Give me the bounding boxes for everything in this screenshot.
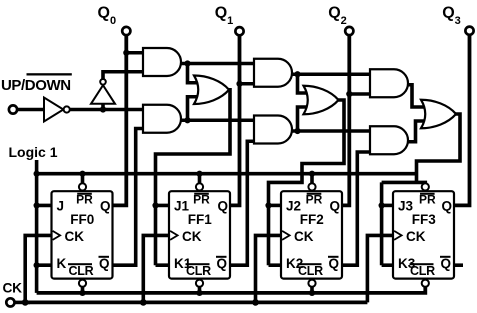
svg-text:FF3: FF3 — [412, 212, 436, 227]
wire J3/K3 riser — [380, 182, 384, 265]
svg-text:FF1: FF1 — [188, 212, 212, 227]
wire AND1a output chain to AND2a input — [180, 62, 258, 66]
svg-text:Q3: Q3 — [442, 5, 461, 27]
clock triangle FF1 — [170, 231, 178, 240]
svg-text:Logic 1: Logic 1 — [9, 144, 58, 160]
junction CK input — [22, 299, 29, 306]
junction Logic1 / PR trunk — [34, 171, 40, 177]
svg-text:J: J — [57, 199, 65, 214]
wire junction to OR2 bottom input — [298, 107, 310, 131]
svg-text:J2: J2 — [286, 199, 301, 214]
wire AND3b output to OR3 bottom input — [407, 121, 427, 142]
svg-text:Q: Q — [329, 256, 340, 271]
junction J2 — [265, 202, 271, 208]
and-gate A4 (DOWN&#183;Q0bar&#183;Q1bar) — [254, 116, 292, 144]
junction AND2a output — [294, 71, 300, 77]
wire PR stub FF0 — [81, 174, 85, 184]
svg-text:Q: Q — [99, 256, 110, 271]
svg-text:Q0: Q0 — [98, 5, 117, 27]
svg-text:CK: CK — [65, 229, 85, 244]
junction AND1a output — [184, 60, 190, 66]
junction PR stub FF0 — [79, 171, 85, 177]
overline DOWN — [27, 73, 72, 75]
svg-text:UP/DOWN: UP/DOWN — [1, 77, 71, 94]
svg-text:CLR: CLR — [69, 264, 94, 278]
junction J0 — [34, 202, 40, 208]
clock triangle FF3 — [394, 231, 402, 240]
overline Qbar FF2 — [328, 256, 339, 258]
wire PR stub FF2 — [310, 174, 314, 184]
junction CLR stub FF2 — [309, 290, 315, 296]
overline PR FF1 — [194, 193, 209, 195]
wire junction to OR1 bottom input — [188, 97, 201, 121]
svg-text:Q: Q — [100, 199, 111, 214]
clock triangle FF2 — [282, 231, 290, 240]
wire J2 input — [269, 204, 285, 208]
wire CK riser FF3 — [367, 235, 396, 302]
wire FF1 Q output to node Q1 trunk — [228, 35, 240, 206]
svg-text:Q1: Q1 — [215, 5, 234, 27]
svg-text:Q: Q — [218, 199, 229, 214]
flip-flop FF2 box — [281, 191, 342, 278]
wire OR1 output to J1/K1 riser — [156, 90, 231, 265]
wire CLR trunk — [37, 286, 426, 293]
overline PR FF2 — [307, 193, 322, 195]
wire node Q2 to AND3a bottom input — [349, 92, 374, 96]
svg-text:FF2: FF2 — [300, 212, 324, 227]
svg-text:Q: Q — [217, 256, 228, 271]
junction AND1b output — [184, 117, 190, 123]
inverter U1 (UP/DOWN input) — [44, 98, 63, 122]
junction CLR stub FF0 — [79, 290, 85, 296]
svg-text:Q: Q — [441, 256, 452, 271]
wire node Q1 to AND2a bottom input — [240, 82, 259, 86]
terminal CK input — [6, 298, 14, 306]
junction PR stub FF1 — [196, 171, 202, 177]
junction AND2b output — [294, 128, 300, 134]
junction J3 — [379, 202, 385, 208]
wire FF0 Q output to node Q0 trunk — [111, 35, 127, 206]
svg-text:CLR: CLR — [186, 264, 211, 278]
overline CLR FF2 — [298, 263, 322, 265]
svg-text:CK: CK — [294, 229, 314, 244]
svg-text:CK: CK — [406, 229, 426, 244]
wire U1 output to AND1b top input (DOWN line) — [70, 108, 147, 112]
terminal UP/DOWN input — [9, 105, 17, 113]
inverter U2 (up-pointing) — [91, 85, 115, 104]
wire junction to OR2 top input — [298, 74, 310, 93]
wire FF2 Qbar to AND3b bottom input — [340, 152, 374, 265]
overline Qbar FF0 — [99, 256, 110, 258]
svg-text:CK: CK — [182, 229, 202, 244]
or-gate O2 (J2K2) — [304, 86, 339, 115]
and-gate A3 (UP&#183;Q0&#183;Q1) — [254, 59, 292, 87]
wire PR trunk (Logic 1 line) — [37, 172, 417, 176]
wire stub U2 base to DOWN line — [101, 103, 105, 110]
svg-text:Q2: Q2 — [328, 5, 347, 27]
clear bubble FF1 — [196, 280, 203, 287]
and-gate A1 (UP&#183;Q0) — [143, 48, 181, 76]
and-gate A2 (DOWN&#183;Q0bar) — [143, 105, 181, 133]
svg-text:CK: CK — [3, 281, 23, 296]
wire FF0 Qbar to AND1b bottom input — [111, 129, 148, 266]
wire J3 input — [382, 204, 396, 208]
wire AND1b output chain to AND2b input — [180, 118, 258, 122]
junction node Q2 / AND3a — [346, 91, 352, 97]
overline PR FF0 — [77, 193, 92, 195]
junction CK riser FF2 — [252, 299, 259, 306]
wire FF3 Qbar stub — [452, 263, 463, 267]
preset bubble FF1 — [196, 183, 203, 190]
svg-text:Q: Q — [330, 199, 341, 214]
overline PR FF3 — [420, 193, 435, 195]
preset bubble FF3 — [422, 183, 429, 190]
overline CLR FF1 — [186, 263, 210, 265]
wire FF2 Q output to node Q2 trunk — [340, 35, 349, 206]
terminal Q2 output — [345, 27, 353, 35]
clear bubble FF0 — [79, 280, 86, 287]
clear bubble FF2 — [308, 280, 315, 287]
junction DOWN line / U2 — [100, 106, 106, 112]
flip-flop FF0 box — [52, 191, 113, 278]
junction CLR stub FF1 — [196, 290, 202, 296]
overline CLR FF3 — [410, 263, 434, 265]
terminal Q3 output — [465, 27, 473, 35]
wire FF3 Q output to node Q3 trunk — [452, 34, 470, 205]
junction node Q0 / AND1a — [123, 50, 129, 56]
flip-flop FF3 box — [393, 191, 454, 278]
terminal Q0 output — [122, 27, 130, 35]
wire CLR stub FF0 — [81, 287, 85, 293]
wire AND2b output chain to AND3b input — [291, 129, 374, 133]
wire AND2a output chain to AND3a input — [291, 72, 374, 76]
and-gate A5 (UP&#183;Q0&#183;Q1&#183;Q2) — [370, 69, 408, 97]
and-gate A6 (DOWN&#183;Q0bar&#183;Q1bar&#183;Q2bar) — [370, 126, 408, 154]
wire CK riser FF0 — [25, 235, 54, 302]
svg-text:CLR: CLR — [410, 264, 435, 278]
wire J1 input — [156, 204, 173, 208]
wire OR2 output to J2/K2 riser — [269, 100, 345, 265]
wire CLR stub FF1 — [198, 287, 202, 293]
wire PR stub FF1 — [198, 174, 202, 184]
svg-text:Q: Q — [442, 199, 453, 214]
flip-flop FF1 box — [169, 191, 230, 278]
or-gate O3 (J3K3) — [421, 100, 456, 129]
svg-text:FF0: FF0 — [70, 212, 94, 227]
wire J3 feed line to FF3 PR stub — [382, 182, 426, 184]
terminal Q1 output — [235, 27, 243, 35]
preset bubble FF0 — [79, 183, 86, 190]
wire CK riser FF2 — [256, 235, 285, 302]
wire J0 input — [37, 204, 55, 208]
wire OR3 output down to J3 feed line — [417, 114, 461, 182]
junction CK riser FF1 — [140, 299, 147, 306]
wire Logic 1 vertical — [35, 160, 39, 293]
wire U2 bubble up and right to AND1a lower input (UP line) — [103, 72, 147, 79]
wire K2 input — [269, 263, 285, 267]
wire junction to OR1 top input — [188, 64, 201, 83]
overline Qbar FF3 — [440, 256, 451, 258]
preset bubble FF2 — [308, 183, 315, 190]
wire CLR stub FF2 — [310, 287, 314, 293]
wire K3 input — [382, 263, 396, 267]
overline CLR FF0 — [68, 263, 92, 265]
clock triangle FF0 — [53, 231, 61, 240]
wire CK terminal to junction — [14, 301, 30, 305]
svg-text:CLR: CLR — [298, 264, 323, 278]
clear bubble FF3 — [422, 280, 429, 287]
junction K0 — [34, 262, 40, 268]
junction PR stub FF2 — [309, 171, 315, 177]
wire FF1 Qbar to AND2b bottom input — [228, 141, 258, 265]
wire CK riser FF1 — [143, 235, 172, 302]
wire AND3a output to OR3 top input — [407, 85, 427, 107]
wire UP/DOWN input to inverter U1 — [17, 108, 46, 112]
wire node Q0 to AND1a top input — [126, 51, 147, 55]
svg-text:K: K — [57, 256, 67, 271]
wire CK trunk — [25, 300, 367, 304]
overline Qbar FF1 — [216, 256, 227, 258]
wire K0 input — [37, 263, 55, 267]
junction node Q1 / AND2a — [236, 81, 242, 87]
junction J1 — [152, 202, 158, 208]
or-gate O1 (J1K1) — [194, 76, 229, 105]
wire K1 input — [156, 263, 173, 267]
